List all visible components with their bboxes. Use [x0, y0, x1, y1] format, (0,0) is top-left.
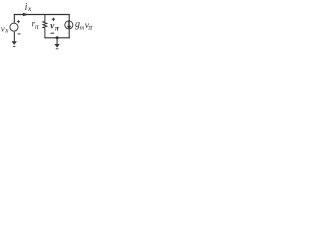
minus sign of v_pi — [51, 32, 54, 34]
ground right — [54, 44, 59, 48]
ground left — [12, 41, 17, 45]
plus sign of Vx — [17, 20, 20, 23]
voltage source Vx circle — [10, 23, 18, 31]
svg-text:x: x — [4, 27, 9, 35]
current source gmvpi wires — [68, 14, 70, 38]
wire ground drop — [56, 38, 58, 44]
resistor r_pi — [43, 14, 47, 38]
svg-text:π: π — [55, 23, 60, 32]
wire left vertical upper — [13, 14, 15, 23]
svg-text:π: π — [35, 22, 40, 31]
minus sign of Vx — [18, 33, 21, 35]
current source gmvpi circle — [65, 21, 73, 29]
junction dot — [56, 36, 59, 39]
wire top — [14, 14, 70, 16]
current arrow ix — [23, 13, 29, 16]
plus sign of v_pi — [52, 18, 55, 21]
current source arrow — [68, 21, 70, 26]
svg-text:π: π — [88, 23, 93, 32]
wire bottom — [44, 37, 69, 39]
wire below Vx — [13, 32, 15, 42]
svg-text:x: x — [27, 4, 32, 13]
